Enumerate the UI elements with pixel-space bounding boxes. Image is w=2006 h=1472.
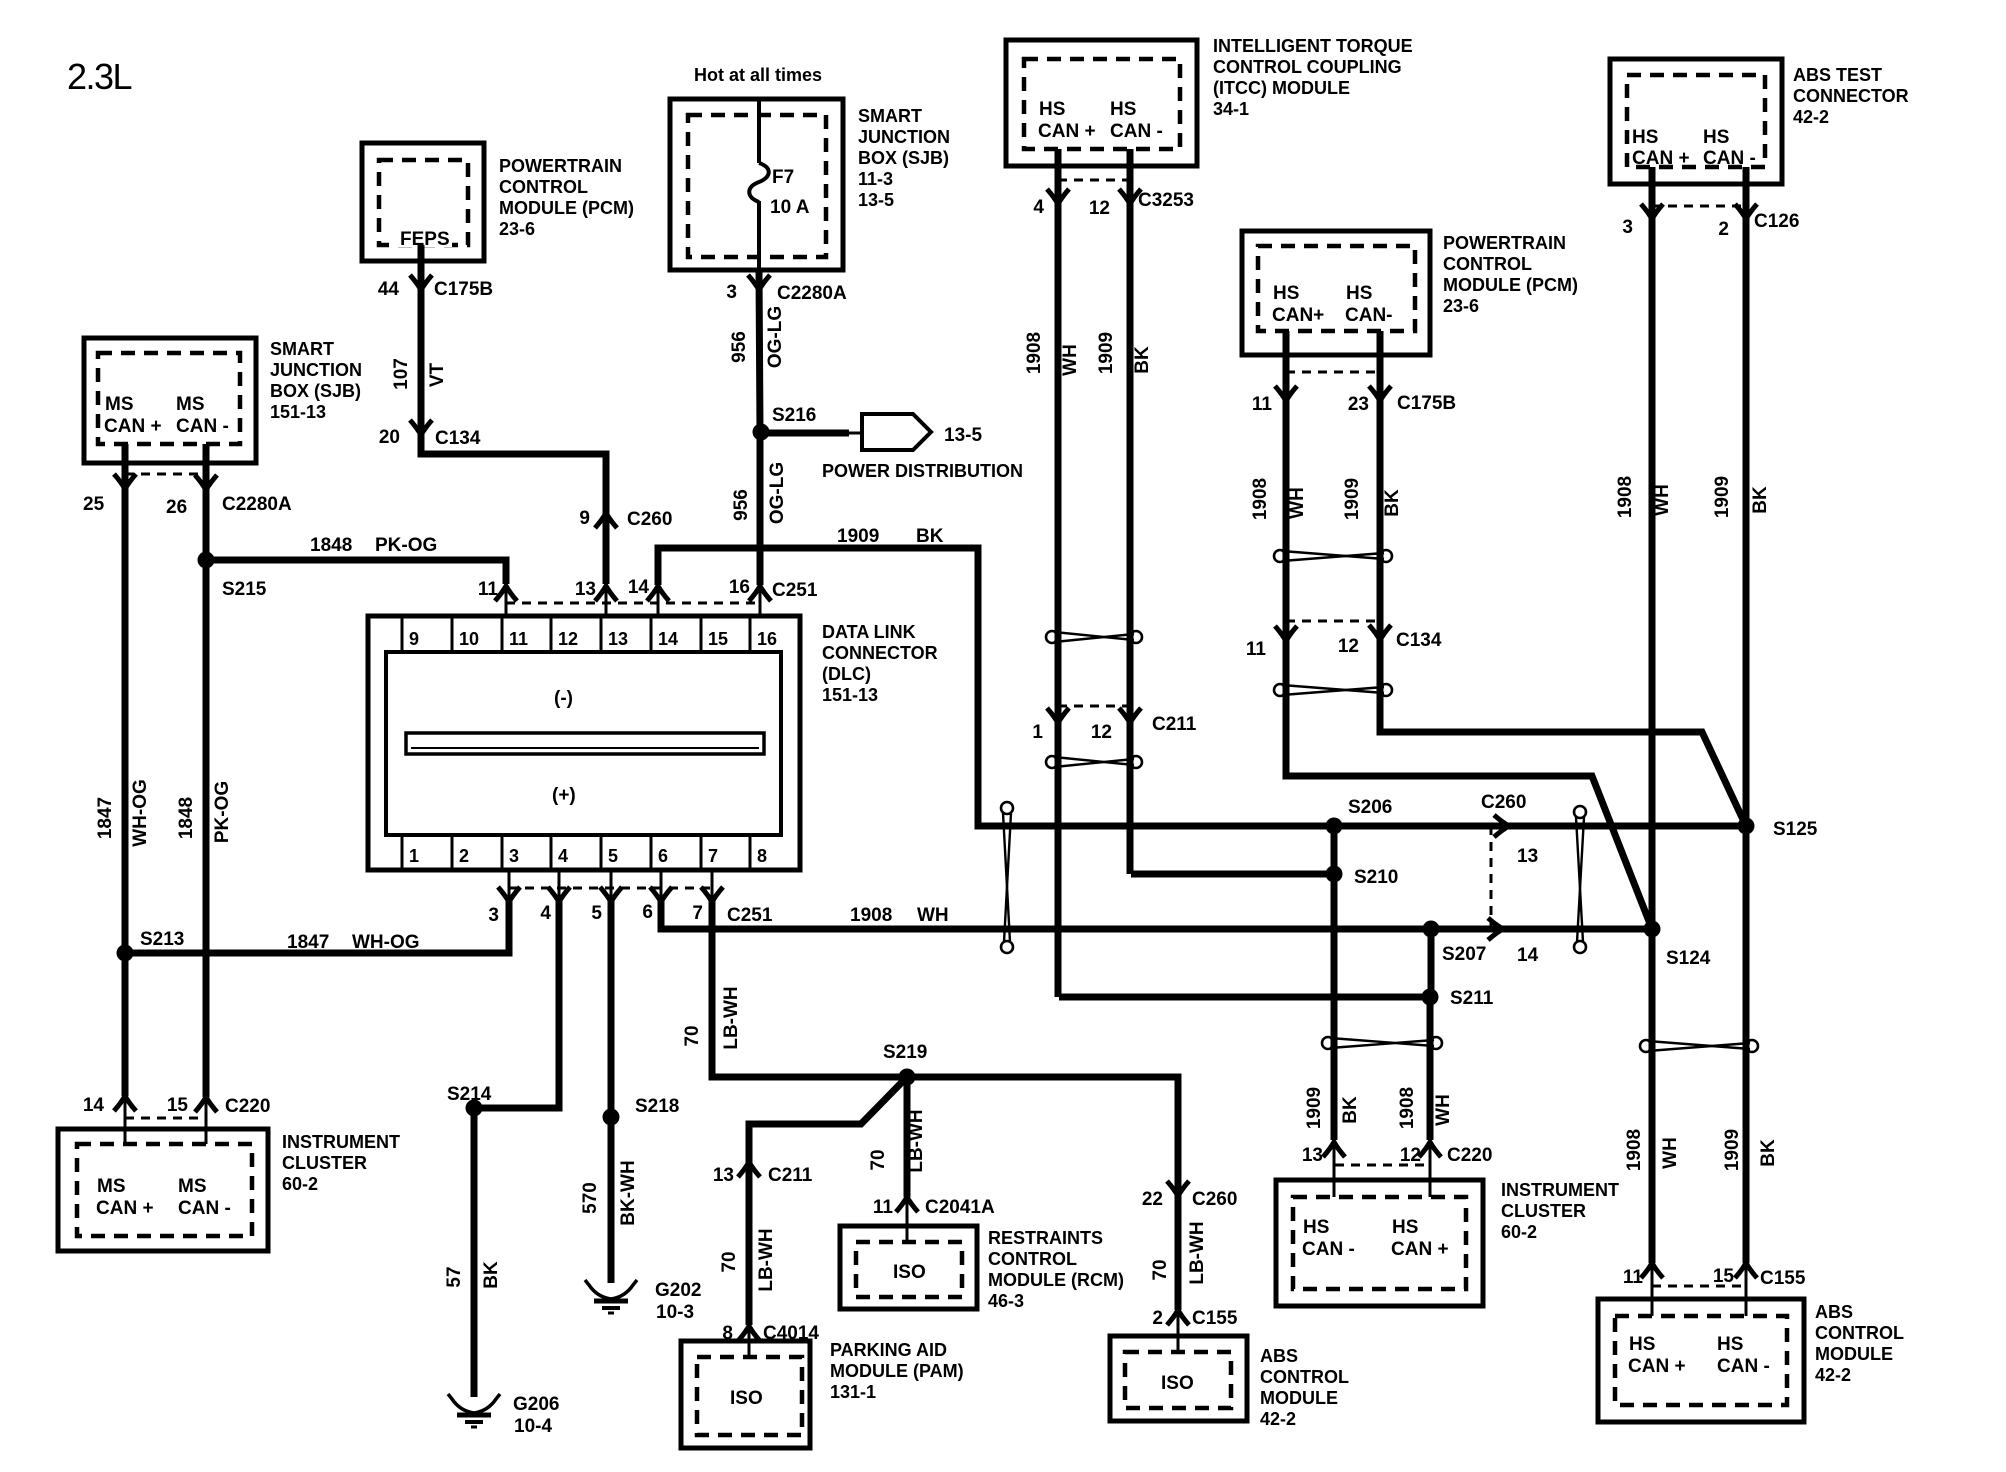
svg-text:WH-OG: WH-OG (130, 779, 151, 847)
svg-text:12: 12 (558, 629, 578, 649)
connector C211 dashed line (1058, 705, 1130, 708)
svg-text:SMART: SMART (858, 106, 922, 126)
svg-text:CAN +: CAN + (1391, 1239, 1449, 1260)
svg-text:DATA LINK: DATA LINK (822, 622, 916, 642)
svg-text:HS: HS (1703, 127, 1729, 148)
svg-text:MODULE: MODULE (1260, 1388, 1338, 1408)
svg-text:1908: 1908 (1024, 332, 1045, 374)
svg-text:CAN -: CAN - (1302, 1239, 1355, 1260)
svg-text:70: 70 (719, 1251, 740, 1272)
svg-text:HS: HS (1629, 1334, 1655, 1355)
svg-text:15: 15 (1713, 1266, 1735, 1287)
svg-text:11: 11 (873, 1197, 894, 1218)
svg-text:14: 14 (1517, 945, 1539, 966)
svg-text:26: 26 (166, 497, 187, 518)
svg-text:C260: C260 (1192, 1189, 1237, 1210)
DLC pin 3 arrow (498, 887, 520, 902)
svg-text:12: 12 (1400, 1145, 1421, 1166)
svg-text:C134: C134 (1396, 630, 1442, 651)
svg-text:C3253: C3253 (1138, 190, 1194, 211)
svg-text:C175B: C175B (434, 279, 493, 300)
wire thin stub DLC pin 7 (711, 870, 714, 900)
svg-text:CONNECTOR: CONNECTOR (822, 643, 938, 663)
svg-text:11: 11 (1252, 394, 1273, 415)
svg-text:BOX (SJB): BOX (SJB) (270, 381, 361, 401)
svg-text:11: 11 (478, 579, 499, 600)
wire WH 1908 from ABS test pin 3 through S124 to ABS module pin 11 (1649, 167, 1656, 1263)
connector C260 pin 22 arrow (1167, 1181, 1189, 1196)
svg-text:WH-OG: WH-OG (352, 932, 420, 953)
wire thin stub into ABS module pin 11 (1651, 1263, 1654, 1316)
svg-text:7: 7 (708, 846, 718, 866)
svg-text:46-3: 46-3 (988, 1291, 1024, 1311)
svg-text:S219: S219 (883, 1042, 927, 1063)
DLC pin 5 arrow (600, 887, 622, 902)
svg-text:ISO: ISO (730, 1388, 763, 1409)
wire PK-OG 1848 S215 branch to DLC pin 11 (206, 560, 506, 584)
svg-text:2: 2 (1718, 219, 1729, 240)
svg-text:60-2: 60-2 (1501, 1222, 1537, 1242)
connector C175B pin 11 arrow (1275, 386, 1297, 401)
svg-text:C155: C155 (1192, 1308, 1238, 1329)
svg-text:14: 14 (83, 1095, 105, 1116)
svg-text:G206: G206 (513, 1394, 559, 1415)
svg-text:C220: C220 (225, 1096, 270, 1117)
splice S211 (1422, 989, 1439, 1006)
svg-text:16: 16 (729, 577, 750, 598)
svg-text:WH: WH (1433, 1094, 1454, 1126)
svg-text:Hot at all times: Hot at all times (694, 65, 822, 85)
svg-text:13-5: 13-5 (858, 190, 894, 210)
svg-text:1848: 1848 (310, 535, 352, 556)
wire WH 1908 from S207 through C260-14 to S124 (1431, 926, 1652, 933)
svg-text:570: 570 (580, 1182, 601, 1214)
wire BK 1909 ITCC branch into S210 (1131, 871, 1334, 878)
svg-text:HS: HS (1303, 1217, 1329, 1238)
svg-text:131-1: 131-1 (830, 1382, 876, 1402)
connector C2280A pin 25 arrow (114, 474, 136, 489)
svg-text:S211: S211 (1450, 988, 1494, 1009)
svg-text:OG-LG: OG-LG (765, 306, 786, 368)
svg-text:23-6: 23-6 (1443, 296, 1479, 316)
twisted pair symbol bus pair left (1001, 802, 1013, 953)
svg-text:CONTROL: CONTROL (499, 177, 588, 197)
svg-text:2.3L: 2.3L (67, 56, 132, 97)
svg-text:MODULE: MODULE (1815, 1344, 1893, 1364)
splice S124 (1644, 921, 1661, 938)
svg-text:S125: S125 (1773, 819, 1818, 840)
restraints control module ISO dashed box (856, 1242, 962, 1297)
svg-text:HS: HS (1632, 127, 1658, 148)
connector C4014 pin 8 arrow (738, 1326, 760, 1341)
svg-text:PK-OG: PK-OG (375, 535, 437, 556)
svg-text:LB-WH: LB-WH (721, 986, 742, 1049)
svg-text:MS: MS (176, 394, 205, 415)
wire thin stub into PAM ISO box (748, 1325, 751, 1357)
svg-text:CAN+: CAN+ (1272, 305, 1324, 326)
svg-text:S218: S218 (635, 1096, 679, 1117)
svg-text:10-3: 10-3 (656, 1302, 694, 1323)
svg-text:S214: S214 (447, 1084, 492, 1105)
svg-text:BK: BK (1750, 486, 1771, 514)
svg-text:8: 8 (757, 846, 767, 866)
DLC pin 6 arrow (650, 887, 672, 902)
wire BK 1909 from S206 through C260-13 to S125 (1334, 823, 1746, 830)
svg-text:INTELLIGENT TORQUE: INTELLIGENT TORQUE (1213, 36, 1413, 56)
svg-text:9: 9 (579, 508, 590, 529)
svg-text:CAN -: CAN - (178, 1198, 231, 1219)
module PCM (FEPS) outer box (362, 143, 484, 261)
connector C3253 pin 12 arrow (1119, 189, 1141, 204)
svg-text:3: 3 (509, 846, 519, 866)
svg-text:1909: 1909 (1096, 332, 1117, 374)
wire thin stub into DLC pin 16 (759, 585, 762, 616)
svg-text:LB-WH: LB-WH (906, 1109, 927, 1172)
connector C260 inline dashed line (1490, 826, 1493, 929)
parking aid module ISO outer box (681, 1341, 810, 1448)
svg-text:CAN -: CAN - (1717, 1356, 1770, 1377)
svg-text:6: 6 (658, 846, 668, 866)
twisted pair symbol ITCC upper (1046, 631, 1142, 643)
DLC top pin cell row dividers (402, 616, 750, 870)
connector C155 pin 11 arrow (1641, 1263, 1663, 1278)
ground G202 (585, 1280, 637, 1313)
restraints control module ISO outer box (840, 1226, 977, 1309)
instrument cluster (right) outer box (1276, 1180, 1483, 1306)
svg-text:RESTRAINTS: RESTRAINTS (988, 1228, 1103, 1248)
svg-text:70: 70 (1150, 1259, 1171, 1280)
connector C260 pin 13 inline arrow (1494, 815, 1509, 837)
svg-text:70: 70 (682, 1025, 703, 1046)
svg-text:SMART: SMART (270, 339, 334, 359)
splice S215 (198, 552, 215, 569)
svg-text:CONTROL COUPLING: CONTROL COUPLING (1213, 57, 1402, 77)
svg-text:ISO: ISO (893, 1262, 926, 1283)
svg-text:13: 13 (1517, 846, 1538, 867)
connector C260 pin 14 inline arrow (1488, 918, 1503, 940)
svg-text:CAN -: CAN - (176, 416, 229, 437)
svg-text:1: 1 (1032, 722, 1043, 743)
DLC bottom pin numbers 1-8 (409, 846, 767, 866)
DLC pin 13 arrow (595, 586, 617, 601)
connector C2280A pin 3 arrow (748, 275, 770, 290)
connector C2280A pin 26 arrow (195, 475, 217, 490)
wire thin stub into cluster pin 13 (1333, 1140, 1336, 1197)
connector C175B pin 23 arrow (1369, 386, 1391, 401)
svg-text:7: 7 (692, 903, 703, 924)
svg-text:CONTROL: CONTROL (1260, 1367, 1349, 1387)
wire WH-OG 1847 from SJB MS CAN+ pin 25 to cluster pin 14 (122, 444, 129, 1096)
svg-text:S124: S124 (1666, 948, 1711, 969)
svg-text:BK: BK (1340, 1096, 1361, 1124)
wire thin lead to power distribution arrow (849, 432, 862, 435)
svg-text:11: 11 (1246, 639, 1267, 660)
svg-text:WH: WH (917, 905, 949, 926)
svg-text:1909: 1909 (1304, 1087, 1325, 1129)
svg-text:8: 8 (722, 1323, 733, 1344)
wire S216 branch to power distribution (761, 430, 849, 437)
svg-text:ABS: ABS (1260, 1346, 1298, 1366)
svg-text:CAN +: CAN + (96, 1198, 154, 1219)
svg-text:956: 956 (729, 331, 750, 363)
connector C126 pin 3 arrow (1641, 204, 1663, 219)
svg-text:16: 16 (757, 629, 777, 649)
svg-text:42-2: 42-2 (1815, 1365, 1851, 1385)
svg-text:956: 956 (731, 489, 752, 521)
wire BK jumper S206 to S210 (1331, 826, 1338, 874)
data link connector DLC outer box (368, 616, 800, 870)
svg-text:C175B: C175B (1397, 393, 1456, 414)
wire thin stub DLC pin 3 (508, 870, 511, 900)
connector C155 pin 15 arrow (1735, 1263, 1757, 1278)
wire BK 1909 from ABS test pin 2 through S125 to ABS module pin 15 (1743, 167, 1750, 1263)
svg-text:CONTROL: CONTROL (1443, 254, 1532, 274)
svg-text:JUNCTION: JUNCTION (858, 127, 950, 147)
svg-text:20: 20 (379, 427, 400, 448)
svg-text:9: 9 (409, 629, 419, 649)
DLC pin 16 arrow (749, 586, 771, 601)
connector C220 pin 15 arrow (195, 1097, 217, 1112)
svg-text:6: 6 (642, 902, 653, 923)
splice S213 (117, 945, 134, 962)
svg-text:60-2: 60-2 (282, 1174, 318, 1194)
svg-text:151-13: 151-13 (822, 685, 878, 705)
svg-text:(+): (+) (552, 785, 576, 806)
svg-text:C211: C211 (1152, 714, 1197, 735)
svg-text:ISO: ISO (1161, 1373, 1194, 1394)
wire WH jumper S207 to S211 (1428, 929, 1435, 997)
svg-text:CLUSTER: CLUSTER (282, 1153, 367, 1173)
wire BK 1909 from S210 to cluster pin 13 (1331, 874, 1338, 1140)
svg-text:BK: BK (916, 526, 944, 547)
svg-text:C134: C134 (435, 428, 481, 449)
svg-text:MODULE (PAM): MODULE (PAM) (830, 1361, 964, 1381)
connector C260 pin 9 arrow (595, 513, 617, 528)
svg-text:C126: C126 (1754, 211, 1799, 232)
svg-text:JUNCTION: JUNCTION (270, 360, 362, 380)
connector C155 dashed line (1652, 1285, 1746, 1288)
svg-text:BK-WH: BK-WH (618, 1160, 639, 1225)
svg-text:BK: BK (481, 1261, 502, 1289)
svg-text:CAN -: CAN - (1703, 148, 1756, 169)
connector C220 pin 12 arrow (1419, 1142, 1441, 1157)
connector C175B dashed line (1286, 371, 1380, 374)
connector C126 dashed line (1652, 205, 1746, 208)
svg-text:POWER DISTRIBUTION: POWER DISTRIBUTION (822, 461, 1023, 481)
svg-text:1909: 1909 (1712, 476, 1733, 518)
svg-text:HS: HS (1392, 1217, 1418, 1238)
svg-text:(-): (-) (554, 688, 573, 709)
svg-text:S213: S213 (140, 929, 184, 950)
svg-text:14: 14 (628, 577, 650, 598)
splice S216 (753, 424, 770, 441)
svg-text:70: 70 (868, 1149, 889, 1170)
svg-text:C260: C260 (627, 509, 672, 530)
connector C220 pin 14 arrow (114, 1096, 136, 1111)
connector C251 bottom dashed line (509, 887, 712, 890)
splice S219 (899, 1069, 916, 1086)
svg-text:S207: S207 (1442, 944, 1486, 965)
DLC slot inner line (411, 747, 759, 749)
svg-text:57: 57 (444, 1266, 465, 1287)
wire thin stub DLC pin 4 (558, 870, 561, 900)
fuse F7 10A wire inside SJB (757, 99, 761, 163)
svg-text:ABS: ABS (1815, 1302, 1853, 1322)
svg-text:VT: VT (427, 362, 448, 387)
svg-text:POWERTRAIN: POWERTRAIN (1443, 233, 1566, 253)
instrument cluster (left) outer box (58, 1129, 268, 1251)
connector C126 pin 2 arrow (1735, 204, 1757, 219)
wire thin stub into cluster pin 15 (205, 1097, 208, 1144)
instrument cluster (right) dashed box (1293, 1197, 1466, 1289)
svg-text:23-6: 23-6 (499, 219, 535, 239)
svg-text:S210: S210 (1354, 867, 1398, 888)
connector C211 pin 13 arrow (738, 1162, 760, 1177)
connector C2041A pin 11 arrow (896, 1197, 918, 1212)
wire WH 1908 from DLC pin 6 to S207 (661, 900, 1431, 929)
svg-text:11: 11 (1623, 1267, 1644, 1288)
DLC pin 4 arrow (548, 887, 570, 902)
svg-text:12: 12 (1089, 198, 1110, 219)
svg-text:S215: S215 (222, 579, 267, 600)
wire BK 1909 from DLC pin 14 to S206 (658, 548, 1334, 826)
connector C220 pin 13 arrow (1323, 1142, 1345, 1157)
wire thin stub into DLC pin 14 (657, 585, 660, 616)
svg-text:MODULE (PCM): MODULE (PCM) (499, 198, 634, 218)
splice S125 (1738, 818, 1755, 835)
connector C134 dashed line (1286, 620, 1380, 623)
wire WH 1908 from S211 to cluster pin 12 (1427, 997, 1434, 1140)
PCM HS CAN dashed box (1258, 246, 1415, 331)
splice S206 (1326, 818, 1343, 835)
twisted pair symbol bus pair right (1574, 806, 1586, 953)
svg-text:1848: 1848 (176, 797, 197, 839)
svg-text:5: 5 (608, 846, 618, 866)
connector C211 pin 12 arrow (1119, 708, 1141, 723)
svg-text:3: 3 (488, 905, 499, 926)
svg-text:WH: WH (1287, 487, 1308, 519)
svg-text:10 A: 10 A (770, 197, 810, 218)
svg-text:INSTRUMENT: INSTRUMENT (282, 1132, 400, 1152)
connector C134 pin 11 arrow (1275, 626, 1297, 641)
svg-text:11: 11 (509, 629, 528, 649)
wire LB-WH 70 from C211 to PAM C4014 pin 8 (746, 1160, 753, 1325)
svg-text:15: 15 (167, 1095, 189, 1116)
wire BK-WH 570 from DLC pin 5 via S218 to G202 (608, 900, 615, 1283)
ITCC module outer box (1006, 40, 1197, 166)
connector C134 pin 12 arrow (1369, 625, 1391, 640)
wire WH-OG 1847 S213 branch to DLC pin 3 (125, 900, 509, 953)
ABS control module outer box (1598, 1299, 1804, 1422)
connector C251 top dashed line (506, 602, 760, 605)
splice S218 (603, 1109, 620, 1126)
svg-text:BOX (SJB): BOX (SJB) (858, 148, 949, 168)
svg-text:CONTROL: CONTROL (1815, 1323, 1904, 1343)
ABS control module ISO outer box (1110, 1336, 1247, 1421)
wire LB-WH 70 S219 branch to RCM C2041A pin 11 (904, 1077, 911, 1197)
wire thin stub into cluster pin 12 (1429, 1140, 1432, 1197)
svg-text:INSTRUMENT: INSTRUMENT (1501, 1180, 1619, 1200)
ITCC module dashed box (1024, 59, 1180, 149)
svg-text:1908: 1908 (1250, 478, 1271, 520)
svg-text:2: 2 (1152, 1308, 1163, 1329)
svg-text:HS: HS (1346, 283, 1372, 304)
wire VT 107 from FEPS pin44 to DLC pin 13 (421, 245, 606, 584)
svg-text:HS: HS (1039, 99, 1065, 120)
svg-text:15: 15 (708, 629, 728, 649)
svg-text:1908: 1908 (850, 905, 892, 926)
svg-text:C211: C211 (768, 1165, 813, 1186)
svg-text:23: 23 (1348, 394, 1369, 415)
svg-text:44: 44 (378, 279, 400, 300)
svg-text:LB-WH: LB-WH (756, 1228, 777, 1291)
svg-text:S206: S206 (1348, 797, 1392, 818)
wire thin stub into ABS ISO box (1177, 1310, 1180, 1352)
connector C175B pin 44 arrow (410, 275, 432, 290)
svg-text:42-2: 42-2 (1260, 1409, 1296, 1429)
svg-text:5: 5 (591, 903, 602, 924)
svg-text:10: 10 (459, 629, 479, 649)
svg-text:151-13: 151-13 (270, 402, 326, 422)
svg-text:CAN +: CAN + (1628, 1356, 1686, 1377)
svg-text:PARKING AID: PARKING AID (830, 1340, 947, 1360)
connector C2280A dashed line (125, 473, 206, 476)
svg-text:C251: C251 (772, 580, 818, 601)
DLC pin 11 arrow (495, 586, 517, 601)
connector C220 left dashed line (125, 1117, 206, 1120)
wire thin stub into DLC pin 13 (605, 584, 608, 616)
svg-text:C155: C155 (1760, 1268, 1806, 1289)
svg-text:22: 22 (1142, 1189, 1163, 1210)
wire thin stub into ABS module pin 15 (1745, 1263, 1748, 1316)
svg-text:BK: BK (1382, 489, 1403, 517)
splice S210 (1326, 866, 1343, 883)
connector C211 pin 1 arrow (1047, 708, 1069, 723)
svg-text:CAN +: CAN + (1038, 121, 1096, 142)
svg-text:1: 1 (409, 846, 419, 866)
smart junction box dashed (688, 115, 826, 257)
DLC top pin numbers 9-16 (409, 629, 777, 649)
DLC inner box (386, 652, 781, 835)
svg-text:C4014: C4014 (763, 1323, 819, 1344)
svg-text:PK-OG: PK-OG (212, 781, 233, 843)
twisted pair symbol ITCC lower (1046, 756, 1142, 768)
svg-text:ABS TEST: ABS TEST (1793, 65, 1882, 85)
svg-text:C2041A: C2041A (925, 1197, 995, 1218)
svg-text:13: 13 (713, 1165, 734, 1186)
svg-text:FEPS: FEPS (400, 229, 450, 250)
wire thin stub DLC pin 5 (610, 870, 613, 900)
connector C155 pin 2 arrow (1167, 1310, 1189, 1325)
svg-text:HS: HS (1110, 99, 1136, 120)
svg-text:4: 4 (558, 846, 568, 866)
splice S207 (1423, 921, 1440, 938)
svg-text:1908: 1908 (1615, 476, 1636, 518)
twisted pair symbol PCM lower (1274, 684, 1392, 696)
svg-text:(DLC): (DLC) (822, 664, 871, 684)
svg-text:13: 13 (575, 579, 596, 600)
wire WH 1908 from ITCC CAN+ pin 4 down to S211 branch (1055, 149, 1062, 997)
wire OG-LG 956 from SJB fuse to DLC pin 16 (759, 270, 760, 585)
fuse F7 element (749, 163, 769, 202)
svg-text:13: 13 (608, 629, 628, 649)
DLC pin 7 arrow (701, 887, 723, 902)
svg-text:C251: C251 (727, 905, 773, 926)
svg-text:CAN +: CAN + (1632, 148, 1690, 169)
connector C134 pin 20 arrow (410, 420, 432, 435)
instrument cluster (left) dashed box (77, 1144, 252, 1236)
wire WH 1908 ITCC branch into S211 (1059, 994, 1431, 1001)
